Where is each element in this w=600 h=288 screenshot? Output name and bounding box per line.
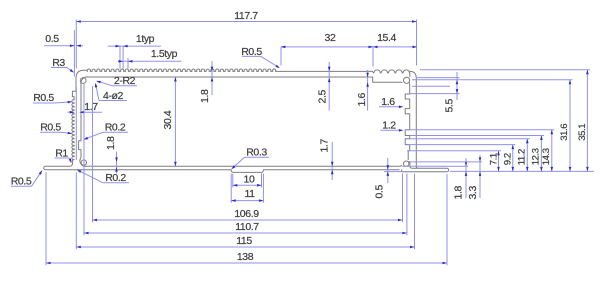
dimension 1.6 step <box>367 70 369 111</box>
svg-text:1.2: 1.2 <box>382 119 396 131</box>
lower-right screw curl boss <box>404 161 409 166</box>
svg-text:R0.2: R0.2 <box>105 172 126 184</box>
leader R0.5 left upper <box>33 102 55 104</box>
svg-text:1typ: 1typ <box>136 33 155 45</box>
extension line foot bottom left short <box>384 171 407 173</box>
leader R0.2 bottom <box>103 182 129 184</box>
svg-text:110.7: 110.7 <box>235 221 259 233</box>
leader 4-phi2 <box>99 100 127 102</box>
dimension 9.2 right stack <box>512 145 514 172</box>
dimension 3.3 bottom right <box>479 155 481 198</box>
svg-text:R0.5: R0.5 <box>241 46 262 58</box>
leader 1.2 right rib <box>381 129 401 131</box>
extension lines bottom right <box>402 174 404 223</box>
extension lines right stack <box>407 150 501 152</box>
svg-text:117.7: 117.7 <box>234 10 258 22</box>
extension lines for 10 and 11 <box>230 174 232 203</box>
dimension 32 / 15.4 chain <box>281 46 417 48</box>
right wall inner face with ribs <box>405 86 410 160</box>
svg-text:10: 10 <box>244 174 255 186</box>
svg-text:30.4: 30.4 <box>162 110 174 129</box>
dimension 1.5typ <box>118 60 181 62</box>
extension lines bottom left <box>45 172 47 265</box>
svg-text:R0.2: R0.2 <box>105 122 126 134</box>
svg-text:12.3: 12.3 <box>530 148 541 165</box>
dimension 138 <box>46 262 447 264</box>
svg-text:0.5: 0.5 <box>373 185 385 199</box>
dimension 14.3 right stack <box>551 130 553 172</box>
leader R1 <box>55 157 70 159</box>
leader R3 <box>51 67 67 69</box>
profile outer outline with serrated top <box>76 69 449 172</box>
extension ticks for 1typ serration <box>119 46 121 69</box>
extension lines for 5.5 <box>417 77 460 79</box>
shared bottom reference extension line right <box>450 170 594 172</box>
top wall interior ceiling with thickness steps <box>89 77 403 82</box>
dimension 11.2 right stack <box>526 139 528 172</box>
extension line x=281 (32 dim left) <box>280 47 282 66</box>
dimension 11 <box>231 200 263 202</box>
svg-text:4-ø2: 4-ø2 <box>103 90 124 102</box>
dimension 110.7 <box>84 232 407 234</box>
dimension 0.5 bottom step <box>387 158 389 183</box>
svg-text:15.4: 15.4 <box>377 32 396 44</box>
svg-text:35.1: 35.1 <box>577 124 588 141</box>
dimension 5.5 right <box>456 72 458 100</box>
dimension 115 <box>76 246 414 248</box>
dimension 30.4 interior height <box>174 77 176 166</box>
svg-text:R0.5: R0.5 <box>40 121 61 133</box>
dimension 1typ <box>108 45 161 47</box>
svg-text:1.8: 1.8 <box>453 186 465 200</box>
dimension 117.7 top <box>76 21 416 23</box>
corner screw boss arc top-left <box>81 77 89 85</box>
svg-text:2.5: 2.5 <box>317 90 329 104</box>
svg-text:11: 11 <box>244 188 255 200</box>
svg-text:R0.5: R0.5 <box>33 92 54 104</box>
svg-text:2-R2: 2-R2 <box>114 75 136 87</box>
dimension 1.8 bottom right <box>465 158 467 198</box>
extension tick for 1.5typ <box>127 58 129 69</box>
lower-left screw boss circle <box>81 160 86 165</box>
extension line x=76.5 long left (117.7/0.5/115) <box>75 20 77 69</box>
svg-text:1.7: 1.7 <box>319 139 331 153</box>
dimension 7.1 right stack <box>498 151 500 172</box>
svg-text:1.6: 1.6 <box>381 96 395 108</box>
dimension 1.8 top wall thickness <box>211 61 213 95</box>
leader R0.5 bottom-left tip <box>11 185 32 187</box>
svg-text:7.1: 7.1 <box>488 153 499 165</box>
left wall inner face with notch <box>79 85 81 158</box>
leader R0.5 left mid <box>40 131 61 133</box>
bottom wall (thin) with left rounded tip and bottom boss notch <box>86 165 400 167</box>
svg-text:106.9: 106.9 <box>234 208 259 220</box>
svg-text:R0.5: R0.5 <box>11 176 32 188</box>
svg-text:1.5typ: 1.5typ <box>151 48 178 60</box>
dimension 0.5 top-left <box>44 45 74 47</box>
svg-text:1.7: 1.7 <box>84 101 98 113</box>
svg-text:R1: R1 <box>55 147 68 159</box>
dimension 12.3 right stack <box>540 136 542 172</box>
screw hole 4-phi2 top-left <box>80 78 86 84</box>
svg-text:9.2: 9.2 <box>502 153 513 165</box>
extension line x=416.5 top right <box>416 20 418 66</box>
svg-text:R3: R3 <box>52 57 65 69</box>
svg-text:R0.3: R0.3 <box>246 147 267 159</box>
svg-text:1.6: 1.6 <box>356 93 368 107</box>
extension line x=373 (32/15.4 shared) <box>372 47 374 67</box>
leader 2-R2 <box>113 85 138 87</box>
leader R0.3 boss <box>245 156 270 158</box>
svg-text:138: 138 <box>237 251 254 263</box>
dimension 1.7 bottom wall thickness <box>331 142 333 180</box>
top-right screw curl boss <box>404 77 410 83</box>
dimension 10 <box>233 184 262 186</box>
dimension 35.1 right stack <box>586 70 588 172</box>
svg-text:1.8: 1.8 <box>199 89 211 103</box>
svg-text:31.6: 31.6 <box>559 124 570 141</box>
leader 1.6 right rib <box>379 106 400 108</box>
leader R0.2 inner notch <box>103 131 128 133</box>
svg-text:3.3: 3.3 <box>467 186 479 200</box>
left wall outer face: R1 fillet, scallops, tab <box>70 87 76 167</box>
svg-text:5.5: 5.5 <box>443 99 455 113</box>
dimension 1.8 left lower notch <box>116 152 118 174</box>
svg-text:115: 115 <box>236 235 252 247</box>
dimension 1.7 left wall thickness <box>80 111 102 113</box>
dimension 106.9 <box>93 219 403 221</box>
svg-text:0.5: 0.5 <box>45 33 59 45</box>
svg-text:14.3: 14.3 <box>541 148 552 165</box>
extension line x=74.5 (0.5 dim left) <box>73 30 75 77</box>
dimension 2.5 wall right-mid thickness <box>328 62 330 111</box>
svg-text:1.8: 1.8 <box>105 136 117 150</box>
leader R0.5 top serration <box>242 55 261 57</box>
svg-text:11.2: 11.2 <box>516 149 527 165</box>
svg-text:32: 32 <box>325 32 336 44</box>
dimension 31.6 right stack <box>569 80 571 172</box>
right wall inner stub above top curl <box>409 73 411 77</box>
